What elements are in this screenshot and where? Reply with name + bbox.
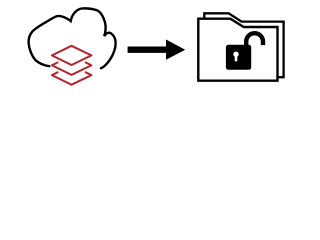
folder back sheet [204,13,283,77]
arrow [128,40,186,60]
padlock keyhole [233,52,238,57]
padlock body [226,45,251,70]
padlock shackle [246,33,263,47]
folder front [198,19,277,81]
red layers stack: bottom chevron [52,72,92,84]
red layers stack: top diamond [52,46,92,65]
red layers stack: middle chevron [52,63,92,75]
cloud outline [29,8,116,68]
